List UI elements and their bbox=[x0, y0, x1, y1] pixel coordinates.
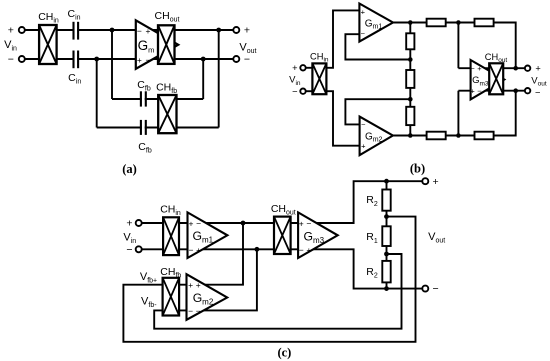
chopper CHfb (c) bbox=[163, 278, 180, 316]
terminal Vin- (c) bbox=[136, 246, 142, 252]
svg-text:−: − bbox=[196, 219, 201, 229]
svg-text:CHin: CHin bbox=[310, 51, 329, 63]
svg-text:+: + bbox=[292, 63, 297, 73]
svg-text:Vout: Vout bbox=[428, 231, 445, 245]
svg-text:+: + bbox=[306, 245, 311, 255]
svg-text:(c): (c) bbox=[277, 345, 291, 359]
terminal Vout+ (c) bbox=[422, 178, 428, 184]
svg-text:+: + bbox=[470, 86, 475, 95]
capacitor Cin top (a) bbox=[74, 27, 77, 33]
resistor R1 (c) bbox=[382, 226, 390, 246]
wire: (b) middle resistor ladder vertical bbox=[409, 23, 411, 136]
terminal Vout- (c) bbox=[422, 286, 428, 292]
svg-text:Cfb: Cfb bbox=[137, 79, 151, 93]
node dot bottom rail tap (b) bbox=[456, 133, 461, 138]
resistor ladder R middle (b) bbox=[406, 70, 414, 88]
chopper CHin (b) bbox=[312, 63, 326, 94]
chopper CHin (a) bbox=[39, 25, 57, 64]
chopper CHout (a) bbox=[158, 25, 175, 64]
node dot Vout+ junction (b) bbox=[513, 66, 518, 71]
chopper CHout (c) bbox=[274, 217, 291, 254]
svg-text:−: − bbox=[306, 219, 311, 229]
wire: (a) upper feedback rail through Cfb and CHfb bbox=[112, 98, 203, 100]
svg-text:−: − bbox=[126, 244, 132, 256]
node dot top rail tap (b) bbox=[456, 20, 461, 25]
wire: (b) Gm3 bottom row through CHout to Vout- bbox=[458, 90, 524, 92]
svg-text:+: + bbox=[196, 245, 201, 255]
svg-text:−: − bbox=[433, 283, 439, 295]
wire: (a) vertical from node on top rail x112 down to upper feedback rail bbox=[111, 30, 113, 99]
node dot Vout+ rail (c) bbox=[384, 179, 389, 184]
wire: (a) lower feedback rail through Cfb and CHfb bbox=[97, 127, 219, 129]
node dot R1/R2 feedback (b) bbox=[408, 57, 413, 62]
svg-text:−: − bbox=[535, 87, 540, 97]
svg-text:−: − bbox=[292, 87, 297, 97]
wire: (b) CHin top output up to Gm1 + input bbox=[326, 10, 359, 67]
svg-text:+: + bbox=[137, 55, 142, 65]
svg-text:CHfb: CHfb bbox=[156, 82, 177, 96]
svg-text:−: − bbox=[361, 29, 366, 38]
svg-text:+: + bbox=[8, 25, 14, 37]
svg-text:−: − bbox=[189, 245, 194, 255]
terminal Vin- (a) bbox=[19, 56, 25, 62]
svg-text:R1: R1 bbox=[366, 231, 378, 245]
wire: (b) Gm2 output bottom rail through resistors to output - corner bbox=[393, 91, 516, 136]
node dot Gm2 output (b) bbox=[408, 133, 413, 138]
wire: (b) Vin- stub into CHin bbox=[306, 90, 312, 92]
wire: (b) feedback from node R1/R2 to Gm1 - input bbox=[345, 34, 410, 59]
node dot R1/R2 (c) bbox=[384, 252, 389, 257]
svg-text:CHin: CHin bbox=[160, 203, 181, 217]
resistor top rail right (b) bbox=[475, 19, 494, 27]
svg-text:(a): (a) bbox=[122, 162, 137, 176]
node dot summing top (c) bbox=[241, 221, 246, 226]
terminal Vout+ (a) bbox=[233, 27, 239, 33]
svg-text:Vout: Vout bbox=[531, 75, 547, 87]
svg-text:−: − bbox=[196, 306, 201, 316]
resistor bottom rail left (b) bbox=[427, 132, 446, 140]
svg-text:+: + bbox=[126, 218, 132, 230]
svg-text:+: + bbox=[361, 141, 366, 150]
wire: (b) CHin bottom output down to Gm2 + input bbox=[326, 91, 359, 146]
wire: (b) Vin+ stub into CHin bbox=[306, 67, 312, 69]
wire: (a) vertical from bottom output rail down to upper feedback rail bbox=[202, 59, 204, 99]
terminal Vout- (b) bbox=[525, 88, 530, 93]
wire: (a) vertical from node on bottom rail x96.7 down to lower feedback rail bbox=[96, 59, 98, 128]
wire: (b) riser top-rail tap to Gm3 + input bbox=[457, 23, 459, 69]
op-amp Gm3 (c) fully-differential bbox=[298, 212, 338, 258]
svg-text:Vin: Vin bbox=[289, 75, 301, 87]
node dot Gm1 output (b) bbox=[408, 20, 413, 25]
svg-text:+: + bbox=[361, 7, 366, 16]
wire: (c) top row Vin+ through CHin Gm1 CHout Gm3 then up to Vout+ rail bbox=[142, 181, 423, 223]
wire: (b) riser bottom-rail tap to Gm3 - input bbox=[457, 91, 459, 136]
svg-text:−: − bbox=[137, 26, 142, 36]
terminal Vin- (b) bbox=[300, 89, 305, 94]
node junction dot top rail / feedback (a) bbox=[110, 28, 115, 33]
svg-text:CHout: CHout bbox=[155, 10, 180, 24]
svg-text:Cin: Cin bbox=[68, 72, 81, 86]
terminal Vout- (a) bbox=[233, 56, 239, 62]
wire: (a) top input rail from Vin+ to CHout bbox=[25, 29, 234, 31]
wire: (b) Gm3 top row through CHout to Vout+ bbox=[458, 67, 524, 69]
op-amp Gm2 (b) bbox=[360, 117, 393, 156]
terminal Vin+ (a) bbox=[19, 27, 25, 33]
op-amp Gm1 (c) fully-differential bbox=[188, 212, 228, 258]
svg-text:R2: R2 bbox=[366, 194, 378, 208]
op-amp Gm (a) fully-differential OTA triangle bbox=[136, 20, 178, 69]
svg-text:R2: R2 bbox=[366, 266, 378, 280]
svg-text:CHin: CHin bbox=[38, 11, 59, 25]
node dot R2/R3 feedback (b) bbox=[408, 97, 413, 102]
capacitor Cfb lower (a) bbox=[142, 125, 145, 131]
svg-text:Vfb+: Vfb+ bbox=[140, 271, 157, 285]
chopper CHin (c) bbox=[163, 217, 179, 255]
svg-text:Vin: Vin bbox=[4, 39, 17, 53]
chopper CHfb (a) bbox=[158, 95, 176, 133]
op-amp Gm1 (b) bbox=[359, 4, 393, 42]
svg-text:−: − bbox=[299, 245, 304, 255]
svg-text:−: − bbox=[244, 54, 250, 66]
resistor R2 top (c) bbox=[382, 190, 390, 211]
op-amp Gm2 (c) feedback OTA bbox=[187, 274, 228, 320]
svg-text:+: + bbox=[244, 24, 250, 36]
node dot R2/R1 (c) bbox=[384, 214, 389, 219]
svg-text:Cfb: Cfb bbox=[138, 141, 152, 155]
svg-text:−: − bbox=[146, 55, 151, 65]
svg-text:−: − bbox=[8, 54, 14, 66]
svg-text:+: + bbox=[299, 219, 304, 229]
resistor ladder R bottom (b) bbox=[406, 107, 414, 125]
node junction dot bottom output rail (a) bbox=[201, 57, 206, 62]
terminal Vin+ (c) bbox=[136, 220, 142, 226]
resistor top rail left (b) bbox=[427, 19, 446, 27]
svg-text:Vfb-: Vfb- bbox=[141, 295, 157, 309]
wire: (c) resistor string vertical R2 R1 R2 bbox=[386, 181, 388, 288]
wire: (b) Gm1 output top rail through resistors to output + corner bbox=[393, 23, 516, 69]
wire: (c) feedback net from R2/R1 node around to Vfb+ into CHfb Gm2 and up to summing node bbox=[123, 217, 415, 342]
wire: (a) bottom input rail from Vin- to CHout bbox=[25, 58, 234, 60]
capacitor Cin bottom (a) bbox=[74, 56, 77, 62]
resistor ladder R top (b) bbox=[406, 33, 414, 49]
svg-text:CHfb: CHfb bbox=[160, 266, 181, 280]
svg-text:CHout: CHout bbox=[271, 203, 296, 217]
svg-text:+: + bbox=[146, 26, 151, 36]
svg-text:Cin: Cin bbox=[67, 8, 80, 22]
svg-text:+: + bbox=[535, 64, 540, 74]
svg-text:−: − bbox=[470, 64, 475, 73]
node dot Vout- rail (c) bbox=[384, 286, 389, 291]
capacitor Cfb upper (a) bbox=[142, 96, 145, 102]
node junction dot bottom rail / feedback (a) bbox=[94, 57, 99, 62]
resistor bottom rail right (b) bbox=[475, 132, 494, 140]
wire: (a) vertical from top output rail down to lower feedback rail bbox=[218, 30, 220, 128]
svg-text:+: + bbox=[196, 280, 201, 290]
terminal Vout+ (b) bbox=[525, 66, 530, 71]
svg-text:+: + bbox=[189, 219, 194, 229]
wire: (b) feedback from node R2/R3 to Gm2 - input bbox=[345, 99, 410, 124]
wire: (c) bottom row Vin- through CHin Gm1 CHout Gm3 then down to Vout- rail bbox=[142, 249, 423, 288]
svg-text:−: − bbox=[361, 120, 366, 129]
chopper CHout (b) bbox=[489, 63, 503, 94]
op-amp Gm3 (b) fully-differential bbox=[471, 60, 505, 99]
svg-text:+: + bbox=[477, 64, 482, 73]
svg-text:−: − bbox=[477, 86, 482, 95]
svg-text:(b): (b) bbox=[410, 161, 425, 175]
resistor R2 bottom (c) bbox=[382, 261, 390, 283]
svg-text:+: + bbox=[188, 280, 193, 290]
terminal Vin+ (b) bbox=[300, 65, 305, 70]
svg-text:+: + bbox=[433, 176, 439, 188]
wire: (c) feedback net from R1/R2 node around to Vfb- into CHfb Gm2 and up to summing node bbox=[154, 249, 401, 328]
node junction dot top output rail (a) bbox=[216, 28, 221, 33]
svg-text:−: − bbox=[188, 306, 193, 316]
node dot summing bottom (c) bbox=[255, 247, 260, 252]
node dot Vout- junction (b) bbox=[513, 88, 518, 93]
